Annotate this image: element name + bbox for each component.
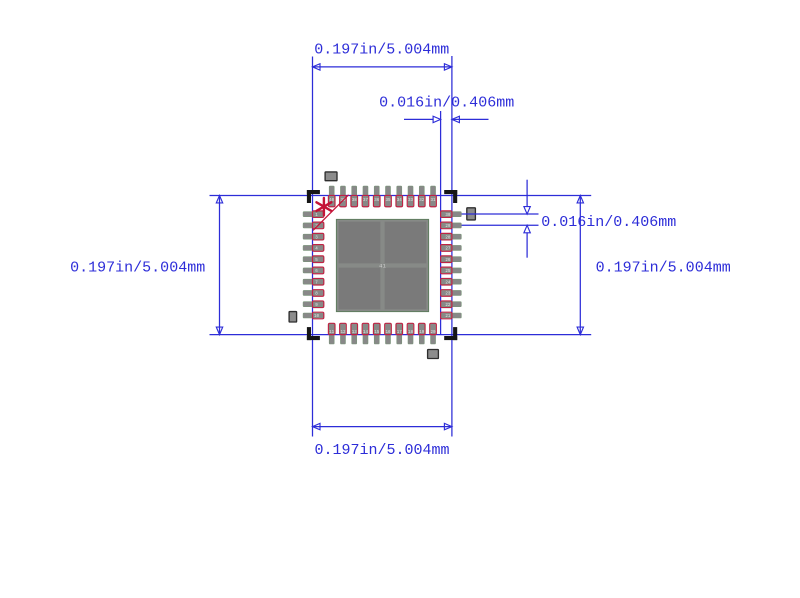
pad pin 12 [340, 323, 347, 344]
svg-text:32: 32 [419, 199, 425, 203]
pad pin 33 [407, 186, 414, 207]
pad pin 20 [430, 323, 437, 344]
svg-text:12: 12 [340, 331, 346, 335]
svg-text:0.197in/5.004mm: 0.197in/5.004mm [314, 442, 449, 459]
pad pin 34 [396, 186, 403, 207]
svg-text:29: 29 [445, 225, 451, 229]
dimension line bottom 0.197in/5.004mm [313, 426, 452, 428]
marker square bottom-left [289, 312, 297, 322]
svg-text:30: 30 [445, 214, 451, 218]
svg-text:11: 11 [329, 331, 335, 335]
dimension line lead length 0.016in/0.406mm [404, 118, 434, 120]
pad pin 22 [441, 301, 462, 308]
pad pin 19 [418, 323, 425, 344]
pad pin 1 [303, 211, 324, 218]
pad pin 29 [441, 222, 462, 229]
pad pin 13 [351, 323, 358, 344]
pad pin 15 [373, 323, 380, 344]
extension line left edge x=312.5 [312, 57, 314, 437]
pad pin 24 [441, 278, 462, 285]
svg-text:33: 33 [408, 199, 414, 203]
svg-text:15: 15 [374, 331, 380, 335]
extension line right edge x=451.9 [451, 56, 453, 437]
svg-text:27: 27 [445, 248, 451, 252]
pad pin 16 [385, 323, 392, 344]
pad pin 39 [340, 186, 347, 207]
thermal pad paste quadrant 3 [339, 268, 381, 310]
svg-text:16: 16 [385, 331, 391, 335]
dimension line top 0.197in/5.004mm [313, 66, 452, 68]
pad pin 11 [328, 323, 335, 344]
svg-text:14: 14 [363, 331, 369, 335]
corner bracket bottom-right [444, 327, 457, 340]
svg-text:18: 18 [408, 331, 414, 335]
pad pin 25 [441, 267, 462, 274]
svg-text:19: 19 [419, 331, 425, 335]
pad pin 4 [303, 245, 324, 252]
svg-text:31: 31 [431, 199, 437, 203]
svg-text:17: 17 [397, 331, 403, 335]
pad pin 6 [303, 267, 324, 274]
pad pin 9 [303, 301, 324, 308]
svg-text:36: 36 [374, 199, 380, 203]
pad pin 17 [396, 323, 403, 344]
svg-text:24: 24 [445, 281, 451, 285]
pad pin 38 [351, 186, 358, 207]
pad pin 21 [441, 312, 462, 319]
thermal pad 41 base [336, 219, 428, 311]
corner bracket top-right [444, 190, 457, 203]
thermal pad paste quadrant 2 [385, 222, 427, 264]
extension line lead inner edge x=440.6 [440, 111, 442, 335]
dimension line right 0.197in/5.004mm [579, 195, 581, 334]
svg-text:34: 34 [397, 199, 403, 203]
pad pin 7 [303, 278, 324, 285]
pad pin 28 [441, 233, 462, 240]
pad pin 35 [385, 186, 392, 207]
pad pin 10 [303, 312, 324, 319]
pad pin 37 [362, 186, 369, 207]
svg-text:21: 21 [445, 315, 451, 319]
pad pin 14 [362, 323, 369, 344]
pad pin 27 [441, 245, 462, 252]
marker square right [467, 208, 476, 220]
svg-text:38: 38 [352, 199, 358, 203]
pad pin 5 [303, 256, 324, 263]
svg-text:0.197in/5.004mm: 0.197in/5.004mm [596, 259, 731, 276]
pin 1 asterisk marker [316, 198, 331, 215]
marker square bottom-right [428, 350, 439, 359]
svg-text:0.016in/0.406mm: 0.016in/0.406mm [541, 214, 676, 231]
pin 1 chamfer diagonal [313, 195, 349, 231]
pad pin 18 [407, 323, 414, 344]
pad pin 30 [441, 211, 462, 218]
corner bracket bottom-left [307, 327, 320, 340]
svg-text:20: 20 [431, 331, 437, 335]
svg-text:22: 22 [445, 304, 451, 308]
svg-text:23: 23 [445, 293, 451, 297]
thermal pad paste quadrant 4 [385, 268, 427, 310]
pad pin 2 [303, 222, 324, 229]
extension line pin29 centerline [453, 224, 539, 226]
svg-text:37: 37 [363, 199, 369, 203]
pad pin 40 [328, 186, 335, 207]
extension line top edge y=195.5 [210, 194, 592, 196]
svg-text:0.197in/5.004mm: 0.197in/5.004mm [314, 41, 449, 58]
svg-text:0.016in/0.406mm: 0.016in/0.406mm [379, 95, 514, 112]
corner bracket top-left [307, 190, 320, 203]
svg-text:35: 35 [385, 199, 391, 203]
dimension line left 0.197in/5.004mm [219, 195, 221, 334]
pad pin 3 [303, 233, 324, 240]
marker square top-left [325, 172, 337, 181]
svg-text:26: 26 [445, 259, 451, 263]
extension line pin30 centerline [453, 213, 539, 215]
svg-text:13: 13 [352, 331, 358, 335]
pad pin 23 [441, 290, 462, 297]
dimension line pitch 0.016in/0.406mm [526, 180, 528, 207]
svg-text:10: 10 [314, 315, 320, 319]
pad pin 36 [373, 186, 380, 207]
pad pin 8 [303, 290, 324, 297]
svg-text:41: 41 [379, 262, 386, 269]
pad pin 26 [441, 256, 462, 263]
svg-text:28: 28 [445, 236, 451, 240]
pad pin 31 [430, 186, 437, 207]
svg-text:25: 25 [445, 270, 451, 274]
svg-text:0.197in/5.004mm: 0.197in/5.004mm [70, 259, 205, 276]
thermal pad paste quadrant 1 [339, 222, 381, 264]
extension line bottom edge y=334.6 [210, 334, 592, 336]
pad pin 32 [418, 186, 425, 207]
